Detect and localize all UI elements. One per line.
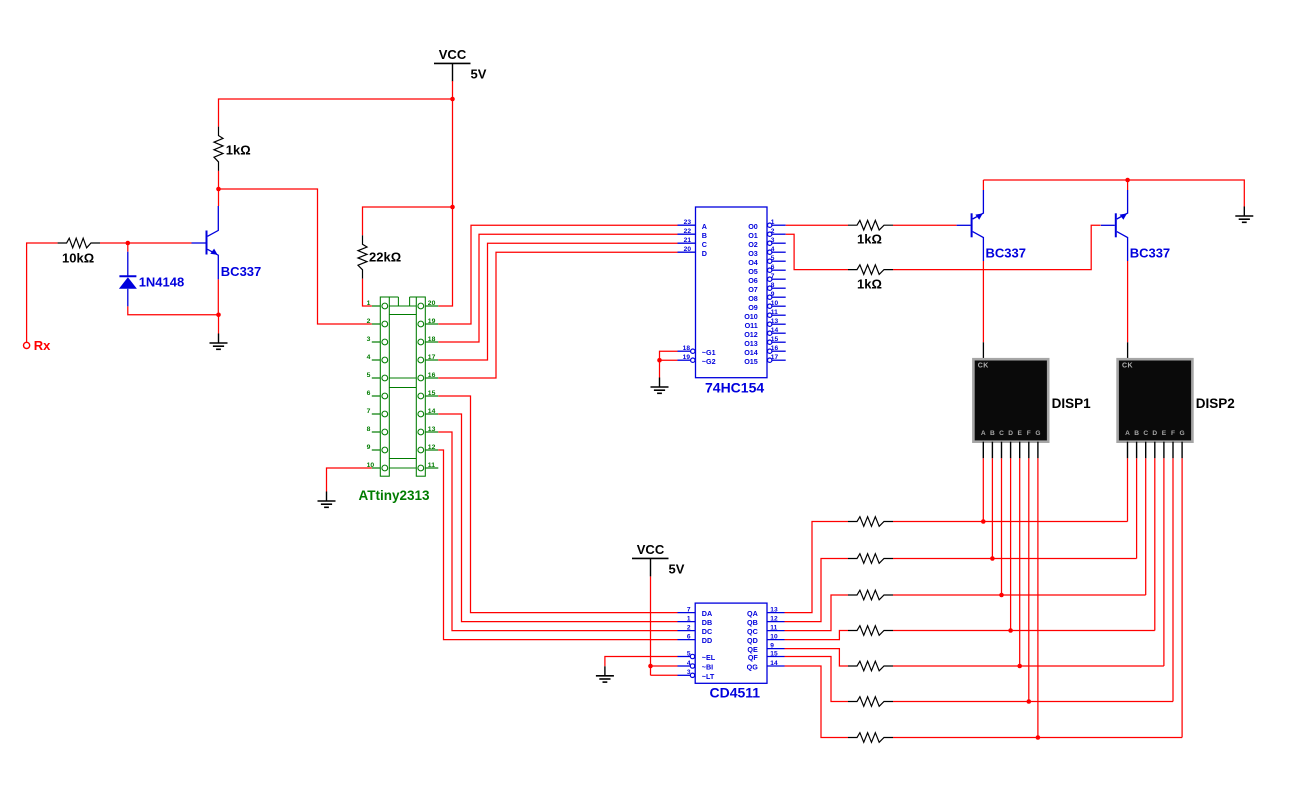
- wire R1 bottom to Q1 collector: [218, 171, 220, 206]
- svg-text:VCC: VCC: [439, 47, 467, 62]
- svg-text:12: 12: [428, 444, 436, 451]
- ground (ATtiny pin 10): [326, 492, 328, 502]
- resistor R12 (segment G): [848, 733, 893, 743]
- wire O0 to R4: [786, 224, 848, 226]
- svg-text:7: 7: [771, 273, 775, 280]
- wire DISP1 pin F down: [1028, 458, 1030, 701]
- wire VCC to ~BI/~LT: [650, 577, 652, 676]
- ground (Q1 emitter): [218, 334, 220, 344]
- svg-text:5V: 5V: [669, 561, 685, 576]
- svg-text:2: 2: [771, 228, 775, 235]
- svg-text:14: 14: [770, 660, 778, 667]
- wire D1 anode to Q1 emitter: [128, 306, 219, 314]
- transistor Q2 BC337 (display 1 driver): [971, 213, 973, 237]
- svg-text:G: G: [1180, 430, 1185, 437]
- wire Q1 collector to ATtiny pin 2: [219, 189, 372, 324]
- wire ATtiny pin 18 to 74HC154 B: [438, 234, 677, 342]
- node VCC/R1 junction: [450, 97, 455, 102]
- svg-text:~BI: ~BI: [702, 663, 713, 672]
- svg-text:QG: QG: [747, 663, 759, 672]
- wire DISP2 pin C down: [1145, 458, 1147, 595]
- svg-text:3: 3: [367, 336, 371, 343]
- resistor R2 10kΩ (horizontal): [58, 238, 100, 248]
- svg-text:QD: QD: [747, 636, 758, 645]
- wire ATtiny pin 13 to CD4511 DC: [438, 432, 677, 631]
- svg-text:O14: O14: [744, 348, 758, 357]
- svg-text:6: 6: [687, 633, 691, 640]
- svg-text:1: 1: [687, 615, 691, 622]
- svg-text:19: 19: [683, 354, 691, 361]
- svg-text:Rx: Rx: [34, 338, 51, 353]
- resistor R3 22kΩ (vertical): [358, 235, 367, 278]
- svg-text:CD4511: CD4511: [710, 685, 761, 701]
- wire CD4511 QG to R12: [785, 666, 849, 738]
- svg-text:5V: 5V: [471, 66, 487, 81]
- node segment E/DISP1 junction: [1017, 664, 1022, 669]
- svg-text:4: 4: [687, 660, 691, 667]
- wire CD4511 QB to R7: [785, 559, 849, 622]
- svg-text:3: 3: [687, 669, 691, 676]
- wire ~EL to ground: [605, 657, 678, 667]
- power symbol VCC 5V (CD4511): [632, 557, 669, 559]
- svg-text:1kΩ: 1kΩ: [226, 143, 251, 158]
- svg-text:O4: O4: [748, 258, 758, 267]
- wire 74HC154 G1/G2 to ground: [660, 351, 678, 360]
- resistor R8 (segment C): [848, 590, 893, 600]
- wire R3 top to VCC rail: [363, 207, 453, 235]
- svg-text:13: 13: [771, 318, 779, 325]
- svg-text:BC337: BC337: [221, 264, 261, 279]
- svg-text:11: 11: [771, 309, 778, 316]
- wire CD4511 QE to R10: [785, 649, 849, 666]
- ground (CD4511 ~EL): [604, 666, 606, 676]
- wire ATtiny pin 19 to 74HC154 A: [438, 225, 677, 324]
- resistor R9 (segment D): [848, 626, 893, 636]
- svg-text:1: 1: [771, 219, 775, 226]
- 7-segment display DISP2: [1118, 359, 1193, 442]
- svg-text:DD: DD: [702, 636, 712, 645]
- svg-text:O5: O5: [748, 267, 758, 276]
- svg-text:9: 9: [771, 291, 775, 298]
- wire DISP2 pin A down: [1127, 458, 1129, 521]
- wire segment A bus: [893, 521, 1128, 523]
- node Q1 emitter junction: [216, 313, 221, 318]
- svg-text:22kΩ: 22kΩ: [369, 250, 401, 265]
- wire Q3 collector to DISP2 CK: [1127, 261, 1129, 342]
- wire emitter rail to ground (top right): [982, 180, 984, 190]
- wire DISP1 pin A down: [982, 458, 984, 521]
- svg-text:22: 22: [684, 228, 692, 235]
- svg-text:A: A: [702, 222, 707, 231]
- wire DISP2 pin D down: [1154, 458, 1156, 630]
- svg-text:9: 9: [770, 642, 774, 649]
- svg-text:3: 3: [771, 237, 775, 244]
- svg-text:BC337: BC337: [986, 246, 1026, 261]
- svg-text:O12: O12: [744, 330, 758, 339]
- svg-text:O7: O7: [748, 285, 758, 294]
- wire R2 to Q1 base: [100, 242, 192, 244]
- wire DISP1 pin B down: [991, 458, 993, 558]
- wire DISP1 pin C down: [1001, 458, 1003, 595]
- ground (74HC154 enables): [659, 378, 661, 388]
- wire ATtiny pin 17 to 74HC154 C: [438, 243, 677, 360]
- wire Q2 collector to DISP1 CK: [982, 261, 984, 342]
- svg-text:DISP1: DISP1: [1052, 396, 1092, 411]
- svg-text:B: B: [1134, 430, 1139, 437]
- wire CD4511 QD to R9: [785, 631, 849, 640]
- wire ATtiny pin 10 to ground: [327, 468, 372, 492]
- svg-text:20: 20: [684, 246, 692, 253]
- svg-text:13: 13: [770, 606, 778, 613]
- svg-text:1N4148: 1N4148: [139, 274, 185, 289]
- svg-text:18: 18: [428, 336, 436, 343]
- svg-text:F: F: [1171, 430, 1175, 437]
- svg-text:6: 6: [367, 390, 371, 397]
- svg-text:11: 11: [770, 624, 777, 631]
- node segment G/DISP1 junction: [1036, 735, 1041, 740]
- svg-text:18: 18: [683, 345, 691, 352]
- wire CD4511 QC to R8: [785, 595, 849, 631]
- 7-segment display DISP1: [973, 359, 1048, 442]
- svg-text:6: 6: [771, 264, 775, 271]
- svg-text:10kΩ: 10kΩ: [62, 250, 94, 265]
- svg-text:7: 7: [687, 606, 691, 613]
- wire O1 to R5: [786, 234, 848, 269]
- svg-text:15: 15: [428, 390, 436, 397]
- svg-text:1kΩ: 1kΩ: [857, 232, 882, 247]
- resistor R10 (segment E): [848, 661, 893, 671]
- resistor R1 1kΩ (vertical): [214, 127, 223, 171]
- svg-text:14: 14: [771, 327, 779, 334]
- svg-text:4: 4: [771, 246, 775, 253]
- wire Rx to R2: [27, 243, 58, 342]
- ground (emitter rail): [1243, 207, 1245, 217]
- wire segment C bus: [893, 594, 1146, 596]
- wire DISP1 pin G down: [1037, 458, 1039, 737]
- svg-text:19: 19: [428, 318, 436, 325]
- resistor R7 (segment B): [848, 554, 893, 564]
- svg-text:~G1: ~G1: [702, 348, 716, 357]
- svg-text:10: 10: [771, 300, 779, 307]
- IC U3 CD4511: [695, 603, 767, 683]
- node segment D/DISP1 junction: [1008, 628, 1013, 633]
- svg-text:O1: O1: [748, 231, 758, 240]
- wire segment E bus: [893, 665, 1164, 667]
- wire VCC to R1 top: [219, 99, 453, 127]
- svg-text:E: E: [1162, 430, 1167, 437]
- svg-text:74HC154: 74HC154: [705, 380, 764, 396]
- transistor Q1 BC337 (left): [206, 231, 208, 255]
- wire DISP2 pin B down: [1136, 458, 1138, 558]
- svg-text:O15: O15: [744, 357, 758, 366]
- wire R4 to Q2 base: [893, 224, 957, 226]
- node rail/Q3 emitter junction: [1125, 178, 1130, 183]
- svg-text:O8: O8: [748, 294, 758, 303]
- svg-text:21: 21: [684, 237, 692, 244]
- svg-text:2: 2: [687, 624, 691, 631]
- svg-text:8: 8: [367, 426, 371, 433]
- wire ATtiny pin 15 to CD4511 DA: [438, 396, 677, 613]
- wire R3 bottom to ATtiny pin 1: [363, 279, 372, 306]
- svg-text:O0: O0: [748, 222, 758, 231]
- wire segment F bus: [893, 701, 1173, 703]
- node base/diode junction: [126, 241, 131, 246]
- node segment F/DISP1 junction: [1027, 699, 1032, 704]
- svg-text:A: A: [981, 430, 986, 437]
- wire DISP2 pin F down: [1172, 458, 1174, 701]
- wire segment B bus: [893, 558, 1137, 560]
- svg-text:QA: QA: [747, 609, 758, 618]
- svg-text:23: 23: [684, 219, 692, 226]
- svg-text:5: 5: [367, 372, 371, 379]
- resistor R4 1kΩ: [848, 220, 893, 230]
- node Q1 collector junction: [216, 187, 221, 192]
- svg-text:17: 17: [428, 354, 436, 361]
- svg-text:9: 9: [367, 444, 371, 451]
- resistor R6 (segment A): [848, 517, 893, 527]
- svg-text:14: 14: [428, 408, 436, 415]
- node segment C/DISP1 junction: [999, 593, 1004, 598]
- wire segment G bus: [893, 737, 1182, 739]
- svg-text:O3: O3: [748, 249, 758, 258]
- svg-text:7: 7: [367, 408, 371, 415]
- wire junction to D1 cathode: [127, 243, 129, 252]
- svg-text:C: C: [999, 430, 1004, 437]
- wire DISP1 pin E down: [1019, 458, 1021, 666]
- svg-text:17: 17: [771, 354, 779, 361]
- svg-text:20: 20: [428, 300, 436, 307]
- svg-text:D: D: [702, 249, 707, 258]
- svg-text:ATtiny2313: ATtiny2313: [359, 488, 431, 503]
- svg-text:O10: O10: [744, 312, 758, 321]
- wire CD4511 QF to R11: [785, 657, 849, 702]
- terminal Rx: [24, 342, 30, 348]
- svg-text:C: C: [702, 240, 707, 249]
- IC socket U1 ATtiny2313: [380, 297, 389, 476]
- wire ATtiny pin 14 to CD4511 DB: [438, 414, 677, 622]
- svg-text:DC: DC: [702, 627, 712, 636]
- wire ATtiny pin 16 to 74HC154 D: [438, 252, 677, 378]
- svg-text:8: 8: [771, 282, 775, 289]
- IC U2 74HC154: [696, 207, 768, 378]
- wire VCC rail down to ATtiny pin 20: [438, 81, 452, 306]
- svg-text:QB: QB: [747, 618, 758, 627]
- wire CD4511 QA to R6: [785, 522, 849, 613]
- svg-text:O11: O11: [745, 321, 758, 330]
- svg-text:~G2: ~G2: [702, 357, 716, 366]
- svg-text:2: 2: [367, 318, 371, 325]
- svg-text:C: C: [1143, 430, 1148, 437]
- resistor R5 1kΩ: [848, 265, 893, 275]
- svg-text:QF: QF: [748, 653, 759, 662]
- node G1/G2 junction: [657, 358, 662, 363]
- wire ATtiny pin 12 to CD4511 DD: [438, 450, 677, 640]
- svg-text:4: 4: [367, 354, 371, 361]
- resistor R11 (segment F): [848, 697, 893, 707]
- svg-text:QC: QC: [747, 627, 758, 636]
- wire Q1 emitter down: [217, 279, 219, 314]
- svg-text:15: 15: [770, 650, 778, 657]
- svg-text:O6: O6: [748, 276, 758, 285]
- node VCC/~BI junction: [648, 664, 653, 669]
- svg-text:G: G: [1035, 430, 1040, 437]
- svg-text:1kΩ: 1kΩ: [857, 276, 882, 291]
- wire emitter junction to ground: [218, 315, 220, 334]
- svg-text:5: 5: [771, 255, 775, 262]
- svg-text:O9: O9: [748, 303, 758, 312]
- svg-text:10: 10: [770, 633, 778, 640]
- svg-text:F: F: [1027, 430, 1031, 437]
- svg-text:~LT: ~LT: [702, 672, 715, 681]
- svg-text:DISP2: DISP2: [1196, 396, 1235, 411]
- wire segment D bus: [893, 630, 1155, 632]
- svg-text:16: 16: [428, 372, 436, 379]
- svg-text:B: B: [702, 231, 707, 240]
- diode D1 1N4148: [127, 252, 129, 277]
- wire DISP2 pin G down: [1181, 458, 1183, 737]
- svg-text:11: 11: [428, 462, 435, 469]
- svg-text:~EL: ~EL: [702, 653, 716, 662]
- wire DISP1 pin D down: [1010, 458, 1012, 630]
- transistor Q3 BC337 (display 2 driver): [1115, 213, 1117, 237]
- svg-text:BC337: BC337: [1130, 246, 1170, 261]
- svg-text:16: 16: [771, 345, 779, 352]
- svg-text:O13: O13: [744, 339, 758, 348]
- wire R5 to Q3 base: [893, 225, 1101, 269]
- svg-text:VCC: VCC: [637, 542, 665, 557]
- svg-text:A: A: [1125, 430, 1130, 437]
- svg-text:DB: DB: [702, 618, 712, 627]
- svg-text:13: 13: [428, 426, 436, 433]
- svg-text:B: B: [990, 430, 995, 437]
- power symbol VCC 5V (top): [434, 62, 471, 64]
- svg-text:D: D: [1008, 430, 1013, 437]
- svg-text:15: 15: [771, 336, 779, 343]
- svg-text:O2: O2: [748, 240, 758, 249]
- node segment A/DISP1 junction: [981, 519, 986, 524]
- svg-text:DA: DA: [702, 609, 712, 618]
- svg-text:CK: CK: [978, 362, 989, 369]
- svg-text:D: D: [1152, 430, 1157, 437]
- node VCC/R3 junction: [450, 205, 455, 210]
- node segment B/DISP1 junction: [990, 556, 995, 561]
- svg-text:5: 5: [687, 650, 691, 657]
- wire DISP2 pin E down: [1163, 458, 1165, 666]
- svg-text:E: E: [1017, 430, 1022, 437]
- svg-text:12: 12: [770, 615, 778, 622]
- svg-text:CK: CK: [1122, 362, 1133, 369]
